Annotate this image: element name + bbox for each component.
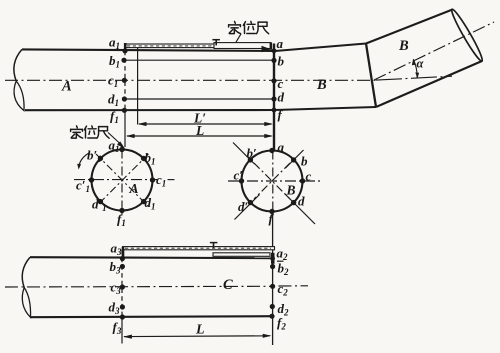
L' dimension line (139, 123, 272, 125)
svg-text:f1: f1 (117, 212, 126, 229)
point b (circle B) (291, 157, 296, 162)
point c1 (circle A) (150, 177, 155, 182)
point a1 on pipe (122, 48, 127, 53)
vertical line from circle B to bottom figure (272, 212, 274, 345)
svg-text:L: L (195, 123, 204, 138)
svg-text:c: c (306, 169, 312, 184)
L dimension extension line below f1 (124, 111, 126, 147)
circle A horizontal centerline (74, 179, 157, 181)
pipe B end ellipse (449, 7, 485, 62)
weld joint line a-f (273, 44, 275, 151)
ruler right hook cap (bottom) (271, 253, 275, 264)
L right arrowhead (bottom) (263, 334, 272, 338)
svg-text:b1: b1 (145, 150, 156, 167)
svg-text:a1: a1 (109, 35, 120, 52)
ruler left cap (bottom) (122, 247, 125, 259)
tick through d (285, 194, 316, 225)
svg-text:d1: d1 (145, 195, 156, 212)
line b1-b (123, 59, 273, 61)
positioning ruler bar (top figure) (125, 44, 263, 48)
tick through d' (235, 195, 260, 220)
circle B center diagonal 1 (254, 163, 290, 199)
point c' (circle B) (239, 178, 244, 183)
point c2 (270, 284, 275, 289)
circle B horizontal centerline (228, 180, 320, 182)
svg-text:d′: d′ (238, 199, 249, 214)
ruler T pin head (212, 39, 220, 41)
svg-text:B: B (316, 77, 327, 93)
svg-text:d: d (278, 90, 285, 105)
ruler sleeve (214, 43, 271, 49)
svg-text:d′1: d′1 (92, 197, 107, 214)
circle B center diagonal 2 (254, 163, 290, 199)
svg-text:b′: b′ (247, 146, 258, 161)
svg-text:d: d (298, 194, 305, 209)
ruler T pin stem (bottom) (213, 243, 215, 249)
svg-text:b: b (278, 54, 285, 69)
leader line to point a1 of circle A (108, 133, 120, 144)
point f1 on pipe (122, 108, 127, 113)
seam a1-f1 hidden dashed line (124, 43, 126, 111)
angle reference line (376, 76, 452, 80)
point a on joint (272, 48, 277, 53)
point b'1 (circle A) (98, 156, 103, 161)
L left arrowhead (top) (126, 134, 135, 138)
ruler hidden dashed line (bottom) (125, 247, 271, 249)
pipe B miter line (366, 44, 376, 108)
ruler bar (bottom figure) (123, 247, 275, 250)
leader arrowhead at circle A (117, 141, 126, 149)
svg-text:b1: b1 (109, 53, 120, 70)
svg-text:a1: a1 (109, 138, 120, 155)
svg-text:B: B (398, 38, 409, 54)
svg-text:b′1: b′1 (87, 148, 102, 165)
svg-text:c1: c1 (108, 73, 118, 90)
pipe A left break lens (14, 81, 24, 111)
leader line to ruler (236, 34, 241, 42)
label 定位尺 (middle left) (71, 126, 83, 138)
ruler left cap (124, 43, 127, 51)
point c3 (120, 284, 125, 289)
line d1-d (123, 98, 273, 100)
ruler lower slide bar (bottom) (213, 253, 270, 256)
svg-text:c2: c2 (278, 281, 289, 298)
L right arrowhead (top) (264, 134, 273, 138)
svg-text:B: B (286, 183, 296, 198)
svg-text:c1: c1 (156, 172, 166, 189)
ruler T pin stem (215, 40, 217, 46)
svg-text:b3: b3 (110, 259, 122, 276)
point f on joint (272, 108, 277, 113)
point f1 (circle A) (119, 208, 124, 213)
pipe B inclined centerline (374, 22, 494, 80)
pipe C left break lens (22, 288, 30, 318)
pipe B inclined bottom edge (376, 61, 482, 107)
svg-text:f3: f3 (113, 320, 122, 337)
point f (circle B) (269, 209, 274, 214)
svg-text:a: a (277, 36, 284, 51)
point a1 (circle A) (119, 147, 124, 152)
point c (circle B) (300, 178, 305, 183)
point d1 (circle A) (141, 199, 146, 204)
pipe A centerline (extends through pipe B horizontal run) (5, 79, 376, 81)
svg-text:c′1: c′1 (76, 178, 90, 195)
pipe C top edge (30, 257, 273, 258)
L dimension line (bottom) (124, 335, 270, 338)
point d'1 (circle A) (98, 199, 103, 204)
tick through b (286, 150, 304, 168)
svg-text:b2: b2 (278, 261, 290, 278)
point a2 (270, 256, 275, 261)
label 定位尺 (top) (229, 21, 241, 33)
point b3 (120, 264, 125, 269)
point d' (circle B) (248, 200, 253, 205)
point b on joint (271, 58, 276, 63)
pipe B bottom edge (horizontal run) (275, 107, 376, 110)
point b1 (circle A) (141, 156, 146, 161)
svg-text:d3: d3 (109, 300, 121, 317)
pipe C centerline right extension (279, 285, 309, 287)
point d3 (120, 304, 125, 309)
ruler right cap (270, 43, 273, 50)
circle B (242, 151, 303, 212)
circle A diagonal b1-d'1 (96, 154, 149, 207)
point c'1 (circle A) (89, 177, 94, 182)
L' left arrowhead (138, 122, 147, 126)
point b2 (270, 264, 275, 269)
pipe C bottom edge (30, 316, 273, 317)
ruler T pin head (bottom) (210, 242, 218, 244)
point b1 on pipe (121, 58, 126, 63)
circle A vertical centerline (121, 150, 123, 216)
pipe C centerline (5, 285, 272, 288)
L extension line below f3 (121, 317, 123, 344)
pipe A top edge (22, 49, 274, 51)
pipe A left break curve (14, 49, 22, 81)
point b' (circle B) (248, 157, 253, 162)
point d1 on pipe (122, 96, 127, 101)
pipe B inclined top edge (366, 10, 453, 44)
ruler pointer arrow (262, 46, 272, 53)
seam a3-f3 hidden dashed line (121, 250, 123, 317)
rotation arrowhead (77, 164, 81, 170)
svg-text:A: A (61, 79, 72, 95)
circle A diagonal b'1-d1 (96, 154, 149, 207)
L' extension line (137, 48, 139, 125)
point c on joint (271, 78, 276, 83)
point c1 on pipe (122, 78, 127, 83)
angle arc arrowhead lower (415, 72, 419, 78)
circle B vertical centerline (272, 151, 274, 213)
svg-text:c′: c′ (234, 168, 244, 183)
svg-text:a: a (278, 140, 285, 155)
svg-text:L: L (195, 323, 205, 338)
point a3 (120, 256, 125, 261)
point a (circle B) (269, 148, 274, 153)
pipe A bottom edge (25, 109, 275, 111)
svg-text:a3: a3 (111, 241, 123, 258)
rotation arrow near b'1 (79, 153, 90, 167)
point f2 (269, 314, 274, 319)
svg-text:d1: d1 (108, 92, 119, 109)
pipe C left break curve (22, 257, 30, 287)
ruler hidden dashed line (127, 45, 260, 47)
angle arc arrowhead upper (412, 59, 416, 66)
a2 side dash (277, 260, 284, 262)
svg-text:α: α (417, 57, 425, 71)
L' right arrowhead (264, 122, 273, 126)
svg-text:C: C (223, 277, 233, 293)
point f3 (120, 314, 125, 319)
pipe B top edge (horizontal run) (275, 44, 366, 52)
circle A right centerline dash (168, 179, 175, 181)
circle A (92, 150, 153, 211)
svg-text:c3: c3 (111, 280, 122, 297)
svg-text:b: b (301, 154, 308, 169)
svg-text:A: A (129, 181, 139, 196)
L dimension line (top) (127, 135, 272, 137)
point d2 (270, 304, 275, 309)
point d on joint (271, 96, 276, 101)
L left arrowhead (bottom) (123, 335, 132, 339)
point d (circle B) (291, 200, 296, 205)
tick through b' (233, 143, 255, 165)
angle alpha arc (413, 59, 417, 78)
